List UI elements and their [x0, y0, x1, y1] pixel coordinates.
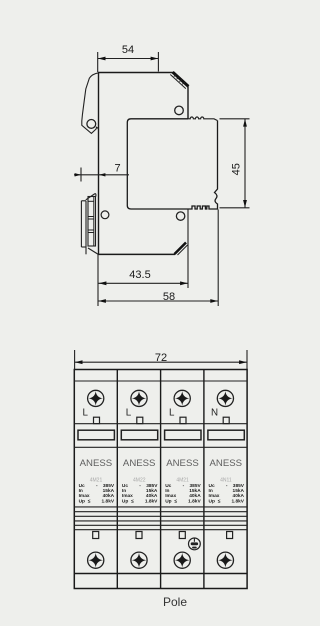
dimension 58 line — [98, 300, 218, 302]
svg-text:Uc: Uc — [165, 483, 171, 489]
svg-text:1.8kV: 1.8kV — [231, 499, 244, 505]
svg-text:1.8kV: 1.8kV — [188, 499, 201, 505]
svg-text:In: In — [165, 488, 169, 494]
module 4 top screw — [217, 390, 233, 406]
base body rounded rectangle with break line and battlements — [127, 119, 217, 209]
svg-text:ANESS: ANESS — [166, 458, 199, 469]
clip rung a — [88, 216, 94, 218]
svg-text:ANESS: ANESS — [210, 458, 243, 469]
dimension 54 extension line right — [157, 52, 159, 72]
svg-text:In: In — [209, 488, 213, 494]
dimension 45 arrow top — [243, 119, 247, 127]
svg-text:ANESS: ANESS — [123, 458, 156, 469]
svg-text:40kA: 40kA — [233, 493, 245, 499]
dimension 7 arrow left (outside) — [75, 173, 81, 176]
dimension 58 extension line right — [217, 210, 219, 307]
vent band line 1 — [74, 506, 247, 508]
screw hole below base — [176, 212, 184, 220]
module 2 terminal slot — [137, 417, 143, 423]
clip rung top — [88, 200, 94, 202]
clip bottom wedge — [88, 248, 99, 255]
module 1 terminal slot — [94, 417, 100, 423]
module 1 indicator window — [78, 430, 114, 440]
module 1 spec lines — [79, 483, 115, 505]
DIN rail left flange outer line — [80, 201, 82, 247]
module 3 lower tab — [179, 532, 185, 539]
svg-text:40kA: 40kA — [146, 493, 158, 499]
svg-text:ANESS: ANESS — [80, 458, 113, 469]
window section divider — [74, 446, 247, 448]
vent band line 2 — [74, 511, 247, 513]
dimension 54 arrow left — [98, 57, 106, 61]
module 2 bottom screw — [131, 552, 147, 568]
module divider 1 — [116, 370, 118, 589]
vent band line 6 — [74, 529, 247, 531]
svg-text:385V: 385V — [103, 483, 115, 489]
svg-text:Pole: Pole — [163, 595, 187, 609]
svg-text:Up: Up — [79, 499, 85, 505]
module 2 indicator window — [121, 430, 157, 440]
svg-text:Uc: Uc — [79, 483, 85, 489]
module 3 indicator window — [165, 430, 201, 440]
svg-text:N: N — [211, 408, 218, 419]
clip rung d — [88, 232, 94, 234]
svg-text:15kA: 15kA — [233, 488, 245, 494]
vent band line 4 — [74, 520, 247, 522]
dimension 72 extension line left — [74, 350, 76, 370]
module 4 terminal slot — [223, 417, 229, 423]
svg-text:4N11: 4N11 — [220, 478, 232, 484]
dimension 54 arrow right — [151, 57, 159, 61]
dimension 58 arrow right — [210, 299, 218, 303]
svg-text:L: L — [169, 408, 175, 419]
dimension 43.5 extension line right — [187, 210, 189, 289]
svg-text:L: L — [126, 408, 132, 419]
chamfer ribbed grip — [173, 72, 189, 86]
svg-text:1.8kV: 1.8kV — [145, 499, 158, 505]
vent band line 3 — [74, 515, 247, 517]
svg-text:Up: Up — [122, 499, 128, 505]
clip top hook — [86, 194, 96, 200]
module 1 bottom screw — [88, 552, 104, 568]
svg-text:4M21: 4M21 — [90, 478, 103, 484]
dimension 54 extension line left — [97, 52, 99, 72]
DIN rail flange top tick — [81, 200, 86, 202]
svg-text:15kA: 15kA — [103, 488, 115, 494]
svg-text:Imax: Imax — [122, 493, 133, 499]
device outer rectangle — [74, 370, 247, 589]
svg-text:≤: ≤ — [131, 499, 134, 505]
module 3 spec lines — [165, 483, 201, 505]
svg-text:≤: ≤ — [174, 499, 177, 505]
DIN rail flange lower tick — [81, 246, 86, 248]
dimension 45 extension tick top — [220, 118, 250, 120]
dimension 72 arrow right — [239, 360, 247, 364]
top cap band line — [74, 380, 247, 382]
svg-text:Up: Up — [165, 499, 171, 505]
clip pivot hole — [101, 211, 109, 219]
ground symbol on module 3 — [189, 538, 201, 550]
svg-text:≤: ≤ — [88, 499, 91, 505]
module 3 top screw — [174, 390, 190, 406]
svg-text:≤: ≤ — [218, 499, 221, 505]
base bottom edge — [99, 253, 176, 255]
dimension 72 line — [75, 361, 247, 363]
dimension 43.5 arrow right — [180, 281, 188, 285]
svg-text:385V: 385V — [233, 483, 245, 489]
svg-text:385V: 385V — [189, 483, 201, 489]
dimension 7 line — [74, 174, 129, 176]
svg-text:Imax: Imax — [79, 493, 90, 499]
dimension 58 arrow left — [98, 299, 106, 303]
module 3 terminal slot — [180, 417, 186, 423]
dimension 45 arrow bottom — [243, 200, 247, 208]
module 2 lower tab — [136, 532, 142, 539]
dimension 58 extension line left — [97, 255, 99, 307]
dimension 43.5 arrow left — [99, 281, 107, 285]
svg-text:72: 72 — [155, 352, 167, 364]
dimension 7 extension line — [80, 168, 82, 182]
svg-text:Imax: Imax — [165, 493, 176, 499]
step line with scallops — [188, 117, 217, 121]
module 1 lower tab — [93, 532, 99, 539]
clip slider inner vertical — [93, 197, 95, 247]
svg-text:385V: 385V — [146, 483, 158, 489]
svg-text:40kA: 40kA — [103, 493, 115, 499]
dimension 72 arrow left — [75, 360, 83, 364]
dimension 72 extension line right — [246, 350, 248, 370]
module 4 spec lines — [209, 483, 245, 505]
module divider 3 — [203, 370, 205, 589]
svg-text:45: 45 — [230, 163, 242, 175]
chamfer hatch ticks — [174, 74, 185, 84]
svg-text:In: In — [79, 488, 83, 494]
head outline: left edge and top face — [99, 73, 174, 255]
svg-text:Up: Up — [209, 499, 215, 505]
clip rung c — [88, 229, 94, 231]
screw hole on head — [175, 106, 184, 115]
svg-text:15kA: 15kA — [189, 488, 201, 494]
svg-text:L: L — [83, 408, 89, 419]
bottom rear hook (thick) — [175, 243, 187, 255]
module 2 spec lines — [122, 483, 158, 505]
module divider 2 — [160, 370, 162, 589]
module 4 bottom screw — [217, 552, 233, 568]
release latch top-left — [82, 73, 99, 134]
svg-text:Imax: Imax — [209, 493, 220, 499]
clip rung b — [88, 218, 94, 220]
vent band line 5 — [74, 524, 247, 526]
module 3 bottom screw — [174, 552, 190, 568]
svg-text:43.5: 43.5 — [129, 269, 150, 281]
head right edge — [187, 86, 189, 119]
dimension 45 line — [244, 119, 246, 208]
svg-text:7: 7 — [114, 163, 120, 175]
svg-text:40kA: 40kA — [189, 493, 201, 499]
svg-text:1.8kV: 1.8kV — [102, 499, 115, 505]
dimension 45 extension tick bottom — [220, 207, 250, 209]
svg-text:4M21: 4M21 — [176, 478, 189, 484]
svg-text:54: 54 — [122, 44, 134, 56]
module 4 indicator window — [208, 430, 244, 440]
latch hole — [87, 120, 96, 129]
svg-text:Uc: Uc — [209, 483, 215, 489]
dimension 43.5 line — [99, 282, 189, 284]
svg-text:In: In — [122, 488, 126, 494]
module 1 top screw — [88, 390, 104, 406]
DIN rail left flange inner line — [85, 201, 87, 255]
svg-text:15kA: 15kA — [146, 488, 158, 494]
svg-text:58: 58 — [163, 291, 175, 303]
terminal section divider — [74, 423, 247, 425]
clip slider body — [88, 197, 96, 247]
dimension 54 line — [98, 58, 159, 60]
svg-text:4M22: 4M22 — [133, 478, 146, 484]
module 4 lower tab — [227, 532, 233, 539]
module 2 top screw — [131, 390, 147, 406]
dimension 7 arrow right (outside) — [99, 173, 105, 176]
bottom foot band line — [74, 573, 247, 575]
svg-text:Uc: Uc — [122, 483, 128, 489]
